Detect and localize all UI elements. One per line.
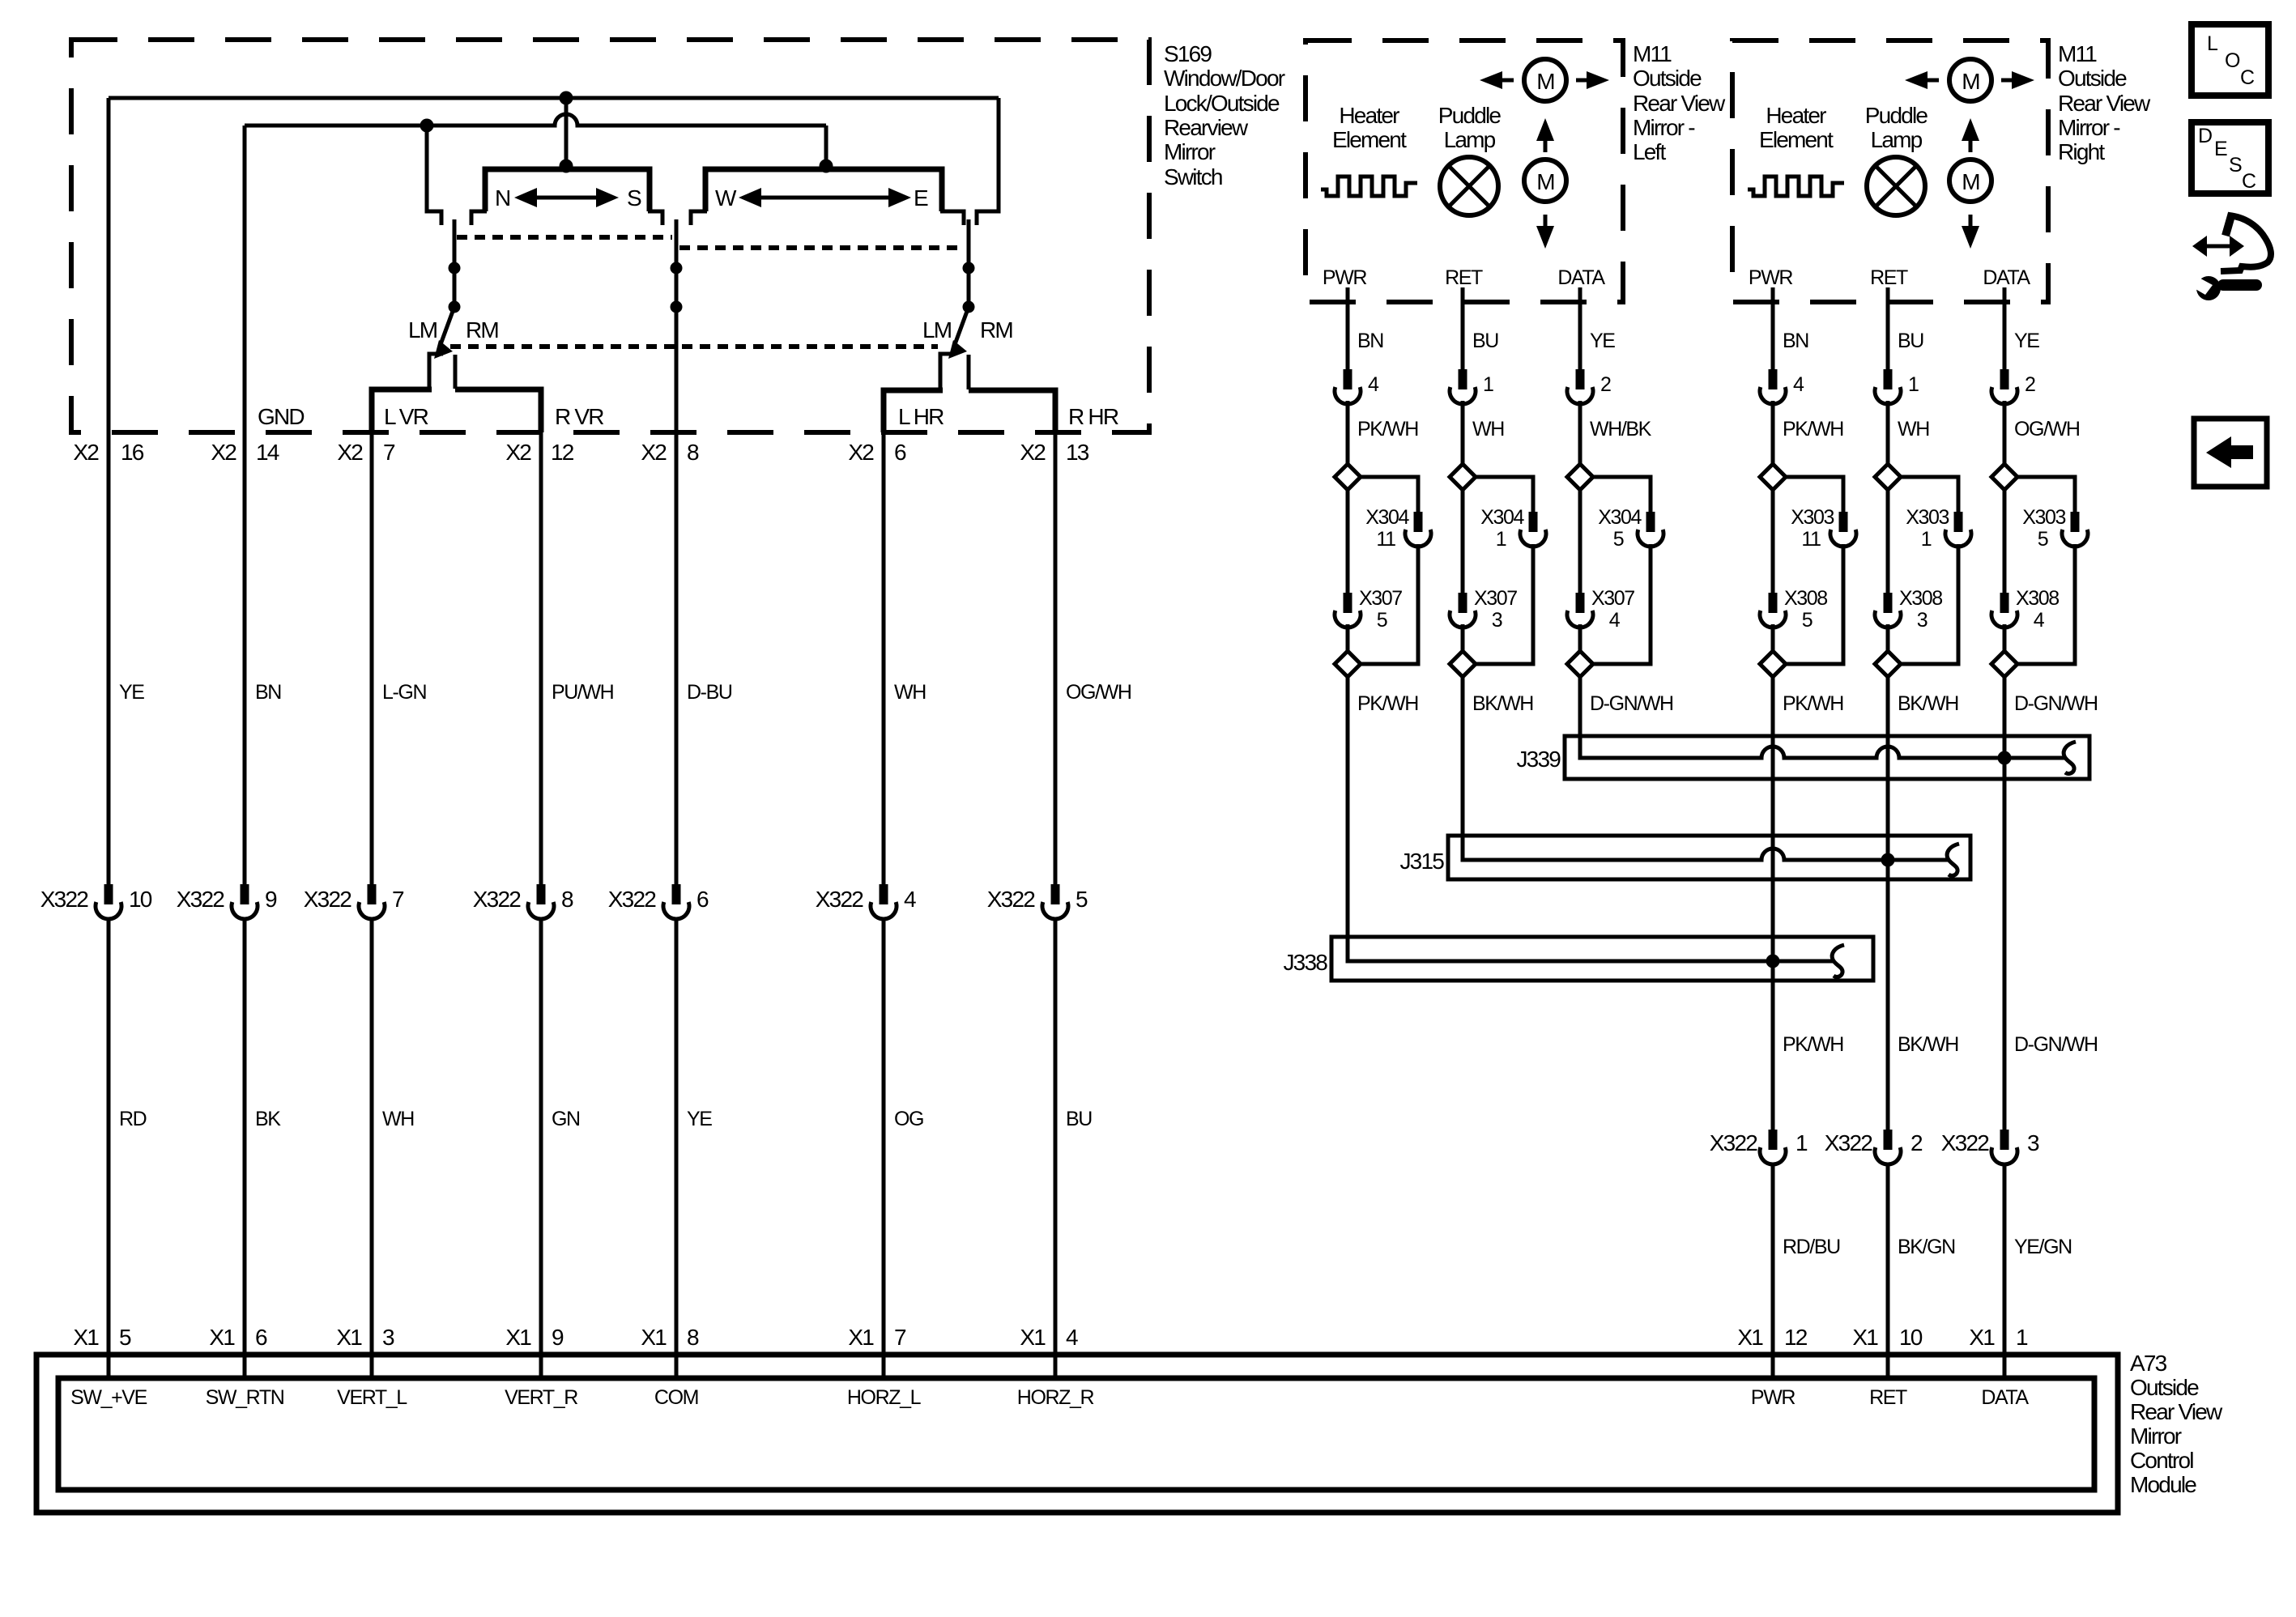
junction dot W-E bar — [820, 160, 833, 173]
svg-text:GN: GN — [552, 1108, 580, 1130]
svg-text:R HR: R HR — [1068, 404, 1118, 429]
svg-text:WH: WH — [1898, 418, 1929, 440]
svg-text:4: 4 — [904, 887, 916, 912]
svg-text:BN: BN — [255, 681, 281, 704]
junction dots on right wiper — [963, 262, 975, 313]
M11 right RET pin wire — [1886, 287, 1890, 369]
svg-text:X1: X1 — [1737, 1325, 1763, 1350]
wire SW_RTN column X2:14 to X322:9 — [243, 126, 247, 884]
svg-text:X322: X322 — [1825, 1130, 1872, 1155]
M11 right mirror dashed box — [1732, 40, 2048, 302]
X322 left connector row — [40, 884, 1088, 919]
heater element symbol right — [1748, 177, 1844, 196]
M11 right PWR pin wire — [1771, 287, 1775, 369]
wire label YE left — [1590, 330, 1615, 352]
connector X322:7 — [304, 884, 404, 919]
svg-text:X2: X2 — [848, 440, 874, 465]
wire SW_+VE column X2:16 to X322:10 — [107, 98, 111, 884]
svg-text:Mirror -: Mirror - — [1633, 115, 1695, 140]
motor right arrow left box — [1576, 71, 1609, 89]
svg-text:3: 3 — [1492, 609, 1502, 632]
svg-text:X1: X1 — [641, 1325, 667, 1350]
svg-text:LM: LM — [408, 317, 437, 343]
svg-text:PK/WH: PK/WH — [1783, 418, 1843, 440]
switch S169 W-E body bracket — [691, 169, 964, 225]
right switch output contact R HR — [967, 355, 971, 389]
svg-text:4: 4 — [2034, 609, 2045, 632]
svg-text:X307: X307 — [1474, 587, 1517, 610]
svg-text:X2: X2 — [1020, 440, 1046, 465]
svg-text:Rear View: Rear View — [2058, 91, 2151, 116]
label R VR — [555, 404, 603, 429]
svg-text:SW_RTN: SW_RTN — [206, 1386, 284, 1409]
label N — [495, 185, 509, 211]
svg-text:J315: J315 — [1399, 849, 1444, 874]
wire color labels RD/BU BK/GN YE/GN — [1783, 1236, 2072, 1258]
svg-text:PWR: PWR — [1749, 266, 1792, 289]
svg-text:M: M — [1536, 169, 1554, 194]
svg-text:M11: M11 — [2058, 41, 2097, 66]
A73 module outer box — [36, 1355, 2118, 1513]
svg-text:5: 5 — [2038, 528, 2048, 551]
svg-text:BU: BU — [1898, 330, 1923, 352]
heater element label left — [1332, 103, 1407, 152]
svg-text:BK/WH: BK/WH — [1898, 1033, 1958, 1056]
svg-text:M: M — [1962, 69, 1979, 94]
svg-text:5: 5 — [1076, 887, 1088, 912]
svg-text:D-GN/WH: D-GN/WH — [2014, 692, 2098, 715]
svg-text:X303: X303 — [1906, 506, 1949, 529]
connector X322:2 — [1825, 1130, 1923, 1164]
svg-text:X304: X304 — [1365, 506, 1409, 529]
wire color labels row 1 left — [119, 681, 1131, 704]
svg-text:RD: RD — [119, 1108, 147, 1130]
svg-text:PWR: PWR — [1323, 266, 1366, 289]
X1 pin row labels left — [73, 1325, 1078, 1350]
svg-text:X308: X308 — [1784, 587, 1827, 610]
svg-text:R VR: R VR — [555, 404, 603, 429]
label S — [627, 185, 641, 211]
svg-text:RET: RET — [1869, 1386, 1907, 1409]
svg-text:D-BU: D-BU — [687, 681, 732, 704]
splice box J338 — [1283, 937, 1873, 981]
svg-text:6: 6 — [696, 887, 709, 912]
svg-text:4: 4 — [1066, 1325, 1078, 1350]
wiper arm left (vertical motor) with arrow — [434, 219, 454, 359]
svg-text:L-GN: L-GN — [382, 681, 426, 704]
svg-text:2: 2 — [1600, 373, 1611, 396]
heater element symbol left — [1321, 177, 1417, 196]
svg-text:HORZ_R: HORZ_R — [1017, 1386, 1094, 1409]
svg-text:E: E — [2214, 138, 2227, 160]
inline splice network col 2331 X303:1/X308:3 — [1875, 401, 1971, 1378]
svg-text:7: 7 — [383, 440, 395, 465]
N-S double arrow — [514, 188, 619, 207]
svg-text:SW_+VE: SW_+VE — [70, 1386, 147, 1409]
svg-text:RM: RM — [466, 317, 498, 343]
svg-text:RD/BU: RD/BU — [1783, 1236, 1840, 1258]
svg-text:VERT_R: VERT_R — [505, 1386, 577, 1409]
inline splice network col 1664 X304:11/X307:5 — [1335, 401, 1431, 937]
svg-text:4: 4 — [1793, 373, 1804, 396]
M11 left title — [1633, 41, 1726, 164]
wire color labels above right X322 — [1783, 1033, 2098, 1056]
svg-text:Heater: Heater — [1339, 103, 1399, 128]
label RM left — [466, 317, 498, 343]
svg-text:X2: X2 — [641, 440, 667, 465]
svg-text:1: 1 — [1795, 1130, 1808, 1155]
M11 left mirror dashed box — [1306, 40, 1623, 302]
svg-text:X322: X322 — [987, 887, 1035, 912]
svg-text:X1: X1 — [505, 1325, 531, 1350]
wire color labels row 2 left — [119, 1108, 1092, 1130]
right switch output contact L HR — [940, 354, 954, 390]
svg-text:BK/WH: BK/WH — [1898, 692, 1958, 715]
connector X322:1 — [1710, 1130, 1808, 1164]
svg-text:Outside: Outside — [2058, 66, 2127, 91]
puddle lamp label right — [1865, 103, 1928, 152]
motor left arrow right box — [1905, 71, 1939, 89]
label GND — [258, 404, 304, 429]
motor M vertical left box — [1524, 160, 1566, 202]
motor right arrow right box — [2001, 71, 2034, 89]
wiper arm right (horizontal motor) with arrow — [948, 219, 969, 359]
svg-text:BN: BN — [1357, 330, 1383, 352]
svg-text:Mirror -: Mirror - — [2058, 115, 2120, 140]
connector M11 DATA pin 2 — [1567, 369, 1611, 404]
svg-text:1: 1 — [1921, 528, 1932, 551]
M11 right DATA pin wire — [2003, 287, 2007, 369]
icon wrench with double arrow — [2190, 213, 2271, 300]
svg-text:D-GN/WH: D-GN/WH — [1590, 692, 1673, 715]
switch S169 N-S feed contact hook — [427, 126, 441, 225]
svg-text:Module: Module — [2130, 1472, 2196, 1497]
svg-text:S: S — [2229, 154, 2242, 177]
svg-text:X2: X2 — [505, 440, 531, 465]
X2 pin row labels — [73, 440, 1088, 465]
splice box J339 — [1516, 736, 2089, 779]
svg-text:7: 7 — [392, 887, 404, 912]
svg-text:1: 1 — [1483, 373, 1493, 396]
svg-text:Outside: Outside — [1633, 66, 1702, 91]
svg-text:X322: X322 — [816, 887, 863, 912]
svg-text:COM: COM — [654, 1386, 698, 1409]
wire label BU left — [1472, 330, 1498, 352]
svg-text:N: N — [495, 185, 509, 211]
svg-text:WH: WH — [382, 1108, 414, 1130]
X322 right connector row — [1710, 1130, 2039, 1164]
motor M horizontal left box — [1524, 59, 1566, 101]
svg-text:X322: X322 — [473, 887, 521, 912]
svg-text:BU: BU — [1472, 330, 1498, 352]
svg-text:X322: X322 — [177, 887, 224, 912]
svg-text:HORZ_L: HORZ_L — [847, 1386, 922, 1409]
svg-text:10: 10 — [129, 887, 152, 912]
dashed gang link N-S wiper to COM — [457, 235, 672, 240]
motor up arrow left box — [1536, 118, 1554, 152]
wire label BN left — [1357, 330, 1383, 352]
svg-text:5: 5 — [1802, 609, 1813, 632]
label W — [715, 185, 737, 211]
junction dot on bus2 — [420, 119, 434, 133]
svg-text:Left: Left — [1633, 139, 1667, 164]
svg-text:X308: X308 — [2016, 587, 2059, 610]
svg-text:X2: X2 — [211, 440, 236, 465]
svg-text:1: 1 — [1496, 528, 1506, 551]
connector X322:8 — [473, 884, 573, 919]
svg-text:VERT_L: VERT_L — [337, 1386, 407, 1409]
svg-text:4: 4 — [1609, 609, 1621, 632]
switch S169 N-S body bracket — [471, 169, 662, 225]
svg-text:PK/WH: PK/WH — [1783, 1033, 1843, 1056]
svg-text:X1: X1 — [336, 1325, 362, 1350]
svg-text:M: M — [1536, 69, 1554, 94]
svg-text:Puddle: Puddle — [1438, 103, 1502, 128]
svg-text:3: 3 — [2027, 1130, 2039, 1155]
svg-text:PK/WH: PK/WH — [1357, 692, 1418, 715]
wire: vertical from bus1 junction down to N-S switch bar — [564, 98, 569, 166]
connector X322:9 — [177, 884, 277, 919]
svg-text:BK/WH: BK/WH — [1472, 692, 1533, 715]
dashed gang link LM-RM wipers — [450, 344, 938, 349]
motor down arrow left box — [1536, 215, 1554, 249]
svg-text:E: E — [914, 185, 928, 211]
icon DESC box — [2192, 122, 2268, 194]
svg-text:13: 13 — [1066, 440, 1089, 465]
svg-text:X303: X303 — [2022, 506, 2065, 529]
svg-text:D: D — [2198, 125, 2212, 147]
svg-text:RM: RM — [980, 317, 1012, 343]
svg-text:8: 8 — [687, 440, 699, 465]
splice box J315 — [1399, 836, 1970, 879]
svg-text:Lock/Outside: Lock/Outside — [1164, 91, 1280, 116]
svg-text:BN: BN — [1783, 330, 1808, 352]
svg-text:PK/WH: PK/WH — [1783, 692, 1843, 715]
label E — [914, 185, 928, 211]
svg-text:OG/WH: OG/WH — [1066, 681, 1131, 704]
label R HR — [1068, 404, 1118, 429]
svg-text:12: 12 — [1784, 1325, 1808, 1350]
svg-text:2: 2 — [1910, 1130, 1923, 1155]
svg-text:YE: YE — [2014, 330, 2039, 352]
svg-text:D-GN/WH: D-GN/WH — [2014, 1033, 2098, 1056]
wire color labels below M11 pins — [1357, 418, 2080, 440]
svg-text:Mirror: Mirror — [1164, 139, 1216, 164]
svg-text:DATA: DATA — [1557, 266, 1605, 289]
svg-text:J339: J339 — [1516, 747, 1561, 772]
bus to L HR pin — [884, 390, 943, 432]
svg-text:X1: X1 — [1852, 1325, 1878, 1350]
svg-text:W: W — [715, 185, 737, 211]
svg-text:YE/GN: YE/GN — [2014, 1236, 2072, 1258]
svg-text:Rear View: Rear View — [2130, 1399, 2223, 1424]
svg-text:Element: Element — [1332, 127, 1407, 152]
connector X322:6 — [608, 884, 709, 919]
svg-text:3: 3 — [382, 1325, 394, 1350]
svg-text:LM: LM — [922, 317, 952, 343]
connector X322:4 — [816, 884, 916, 919]
svg-text:9: 9 — [265, 887, 277, 912]
wire label BN right — [1783, 330, 1808, 352]
svg-text:Window/Door: Window/Door — [1164, 66, 1285, 91]
motor down arrow right box — [1962, 215, 1979, 249]
svg-text:Element: Element — [1759, 127, 1834, 152]
svg-text:11: 11 — [1801, 528, 1821, 551]
wires below X322 left to A73 — [109, 919, 1055, 1378]
label LM right — [922, 317, 952, 343]
svg-text:RET: RET — [1445, 266, 1483, 289]
label LM left — [408, 317, 437, 343]
svg-text:9: 9 — [552, 1325, 564, 1350]
svg-text:YE: YE — [687, 1108, 712, 1130]
icon back arrow box — [2194, 419, 2267, 487]
W-E double arrow — [739, 188, 911, 207]
svg-text:PK/WH: PK/WH — [1357, 418, 1418, 440]
svg-text:Heater: Heater — [1766, 103, 1826, 128]
svg-text:X2: X2 — [337, 440, 363, 465]
svg-text:X322: X322 — [608, 887, 656, 912]
connector M11 right DATA pin 2 — [1991, 369, 2035, 404]
svg-text:GND: GND — [258, 404, 304, 429]
label L HR — [898, 404, 944, 429]
inline splice network col 2189 X303:11/X308:5 — [1760, 401, 1856, 1378]
svg-text:Lamp: Lamp — [1871, 127, 1923, 152]
svg-text:X322: X322 — [1941, 1130, 1989, 1155]
junction dot on bus1 — [560, 91, 573, 105]
wire: top feed bus 2 with hop over vertical at 699 — [245, 114, 826, 126]
svg-text:X1: X1 — [848, 1325, 874, 1350]
svg-text:5: 5 — [119, 1325, 131, 1350]
label L VR — [384, 404, 428, 429]
svg-text:YE: YE — [119, 681, 144, 704]
puddle lamp symbol left — [1440, 157, 1498, 215]
connector M11 RET pin 1 — [1450, 369, 1493, 404]
svg-text:Outside: Outside — [2130, 1375, 2199, 1400]
svg-text:YE: YE — [1590, 330, 1615, 352]
svg-text:5: 5 — [1377, 609, 1387, 632]
svg-text:PWR: PWR — [1751, 1386, 1795, 1409]
junction dot N-S bar center — [560, 160, 573, 173]
motor left arrow left box — [1480, 71, 1514, 89]
svg-text:L HR: L HR — [898, 404, 944, 429]
svg-text:M: M — [1962, 169, 1979, 194]
svg-text:1: 1 — [1908, 373, 1919, 396]
svg-text:X322: X322 — [1710, 1130, 1757, 1155]
svg-text:Puddle: Puddle — [1865, 103, 1928, 128]
svg-text:L VR: L VR — [384, 404, 428, 429]
svg-text:DATA: DATA — [1981, 1386, 2029, 1409]
bus to R HR pin — [969, 390, 1055, 432]
svg-text:Lamp: Lamp — [1444, 127, 1496, 152]
svg-text:8: 8 — [687, 1325, 699, 1350]
svg-text:OG: OG — [894, 1108, 923, 1130]
bus to L VR pin — [372, 389, 432, 432]
svg-text:WH/BK: WH/BK — [1590, 418, 1652, 440]
A73 title — [2130, 1351, 2223, 1497]
svg-text:S169: S169 — [1164, 41, 1212, 66]
svg-text:J338: J338 — [1283, 950, 1327, 975]
connector X322:10 — [40, 884, 152, 919]
S169 switch dashed box — [71, 40, 1149, 432]
pin labels PWR RET DATA left box — [1323, 266, 1605, 289]
svg-text:2: 2 — [2025, 373, 2035, 396]
connector M11 right PWR pin 4 — [1760, 369, 1804, 404]
svg-text:6: 6 — [894, 440, 906, 465]
svg-text:A73: A73 — [2130, 1351, 2167, 1376]
label RM right — [980, 317, 1012, 343]
svg-text:X2: X2 — [73, 440, 99, 465]
wire label BU right — [1898, 330, 1923, 352]
svg-text:Control: Control — [2130, 1448, 2193, 1473]
wire COM column X2:8 to X322:6 — [675, 432, 679, 884]
svg-text:X1: X1 — [1020, 1325, 1046, 1350]
X1 pin row labels right — [1737, 1325, 2028, 1350]
inline splice network col 2475 X303:5/X308:4 — [1991, 401, 2088, 1378]
wire color labels below splices — [1357, 692, 2098, 715]
svg-text:X303: X303 — [1791, 506, 1834, 529]
left switch output contact R VR — [454, 355, 458, 389]
svg-text:Right: Right — [2058, 139, 2105, 164]
svg-text:X307: X307 — [1359, 587, 1402, 610]
svg-text:X1: X1 — [1969, 1325, 1995, 1350]
wire label YE right — [2014, 330, 2039, 352]
A73 module inner box — [58, 1378, 2094, 1490]
S169 title label — [1164, 41, 1285, 189]
wire VERT_L column X2:7 to X322:7 — [370, 432, 374, 884]
svg-text:L: L — [2207, 32, 2218, 55]
wire HORZ_L column X2:6 to X322:4 — [882, 432, 886, 884]
motor M horizontal right box — [1949, 59, 1991, 101]
wire: vertical from bus2 down to W-E switch bar — [824, 126, 829, 166]
svg-text:14: 14 — [256, 440, 279, 465]
svg-text:Rear View: Rear View — [1633, 91, 1726, 116]
heater element label right — [1759, 103, 1834, 152]
connector M11 PWR pin 4 — [1335, 369, 1379, 404]
inline splice network col 1951 X304:5/X307:4 — [1567, 401, 1663, 736]
svg-text:C: C — [2240, 66, 2255, 89]
puddle lamp symbol right — [1867, 157, 1925, 215]
svg-text:11: 11 — [1376, 528, 1395, 551]
svg-text:X304: X304 — [1480, 506, 1524, 529]
svg-text:10: 10 — [1899, 1325, 1923, 1350]
svg-text:1: 1 — [2016, 1325, 2028, 1350]
svg-text:BK/GN: BK/GN — [1898, 1236, 1955, 1258]
svg-text:WH: WH — [894, 681, 926, 704]
M11 left PWR pin wire — [1346, 287, 1350, 369]
COM wiper line — [675, 219, 679, 432]
switch S169 W-E feed contact hook from bus1 — [977, 98, 999, 225]
wire HORZ_R column X2:13 to X322:5 — [1054, 432, 1058, 884]
svg-text:PU/WH: PU/WH — [552, 681, 614, 704]
svg-text:X1: X1 — [73, 1325, 99, 1350]
junction dots on COM wiper — [671, 262, 683, 313]
motor M vertical right box — [1949, 160, 1991, 202]
svg-text:X304: X304 — [1598, 506, 1642, 529]
svg-text:WH: WH — [1472, 418, 1504, 440]
svg-text:RET: RET — [1870, 266, 1908, 289]
svg-text:6: 6 — [255, 1325, 267, 1350]
svg-text:16: 16 — [121, 440, 144, 465]
svg-text:X322: X322 — [304, 887, 351, 912]
svg-text:S: S — [627, 185, 641, 211]
connector X322:5 — [987, 884, 1088, 919]
svg-text:DATA: DATA — [1983, 266, 2030, 289]
svg-text:7: 7 — [894, 1325, 906, 1350]
svg-text:5: 5 — [1613, 528, 1624, 551]
svg-text:Mirror: Mirror — [2130, 1423, 2182, 1449]
svg-text:X307: X307 — [1591, 587, 1634, 610]
svg-text:3: 3 — [1917, 609, 1928, 632]
